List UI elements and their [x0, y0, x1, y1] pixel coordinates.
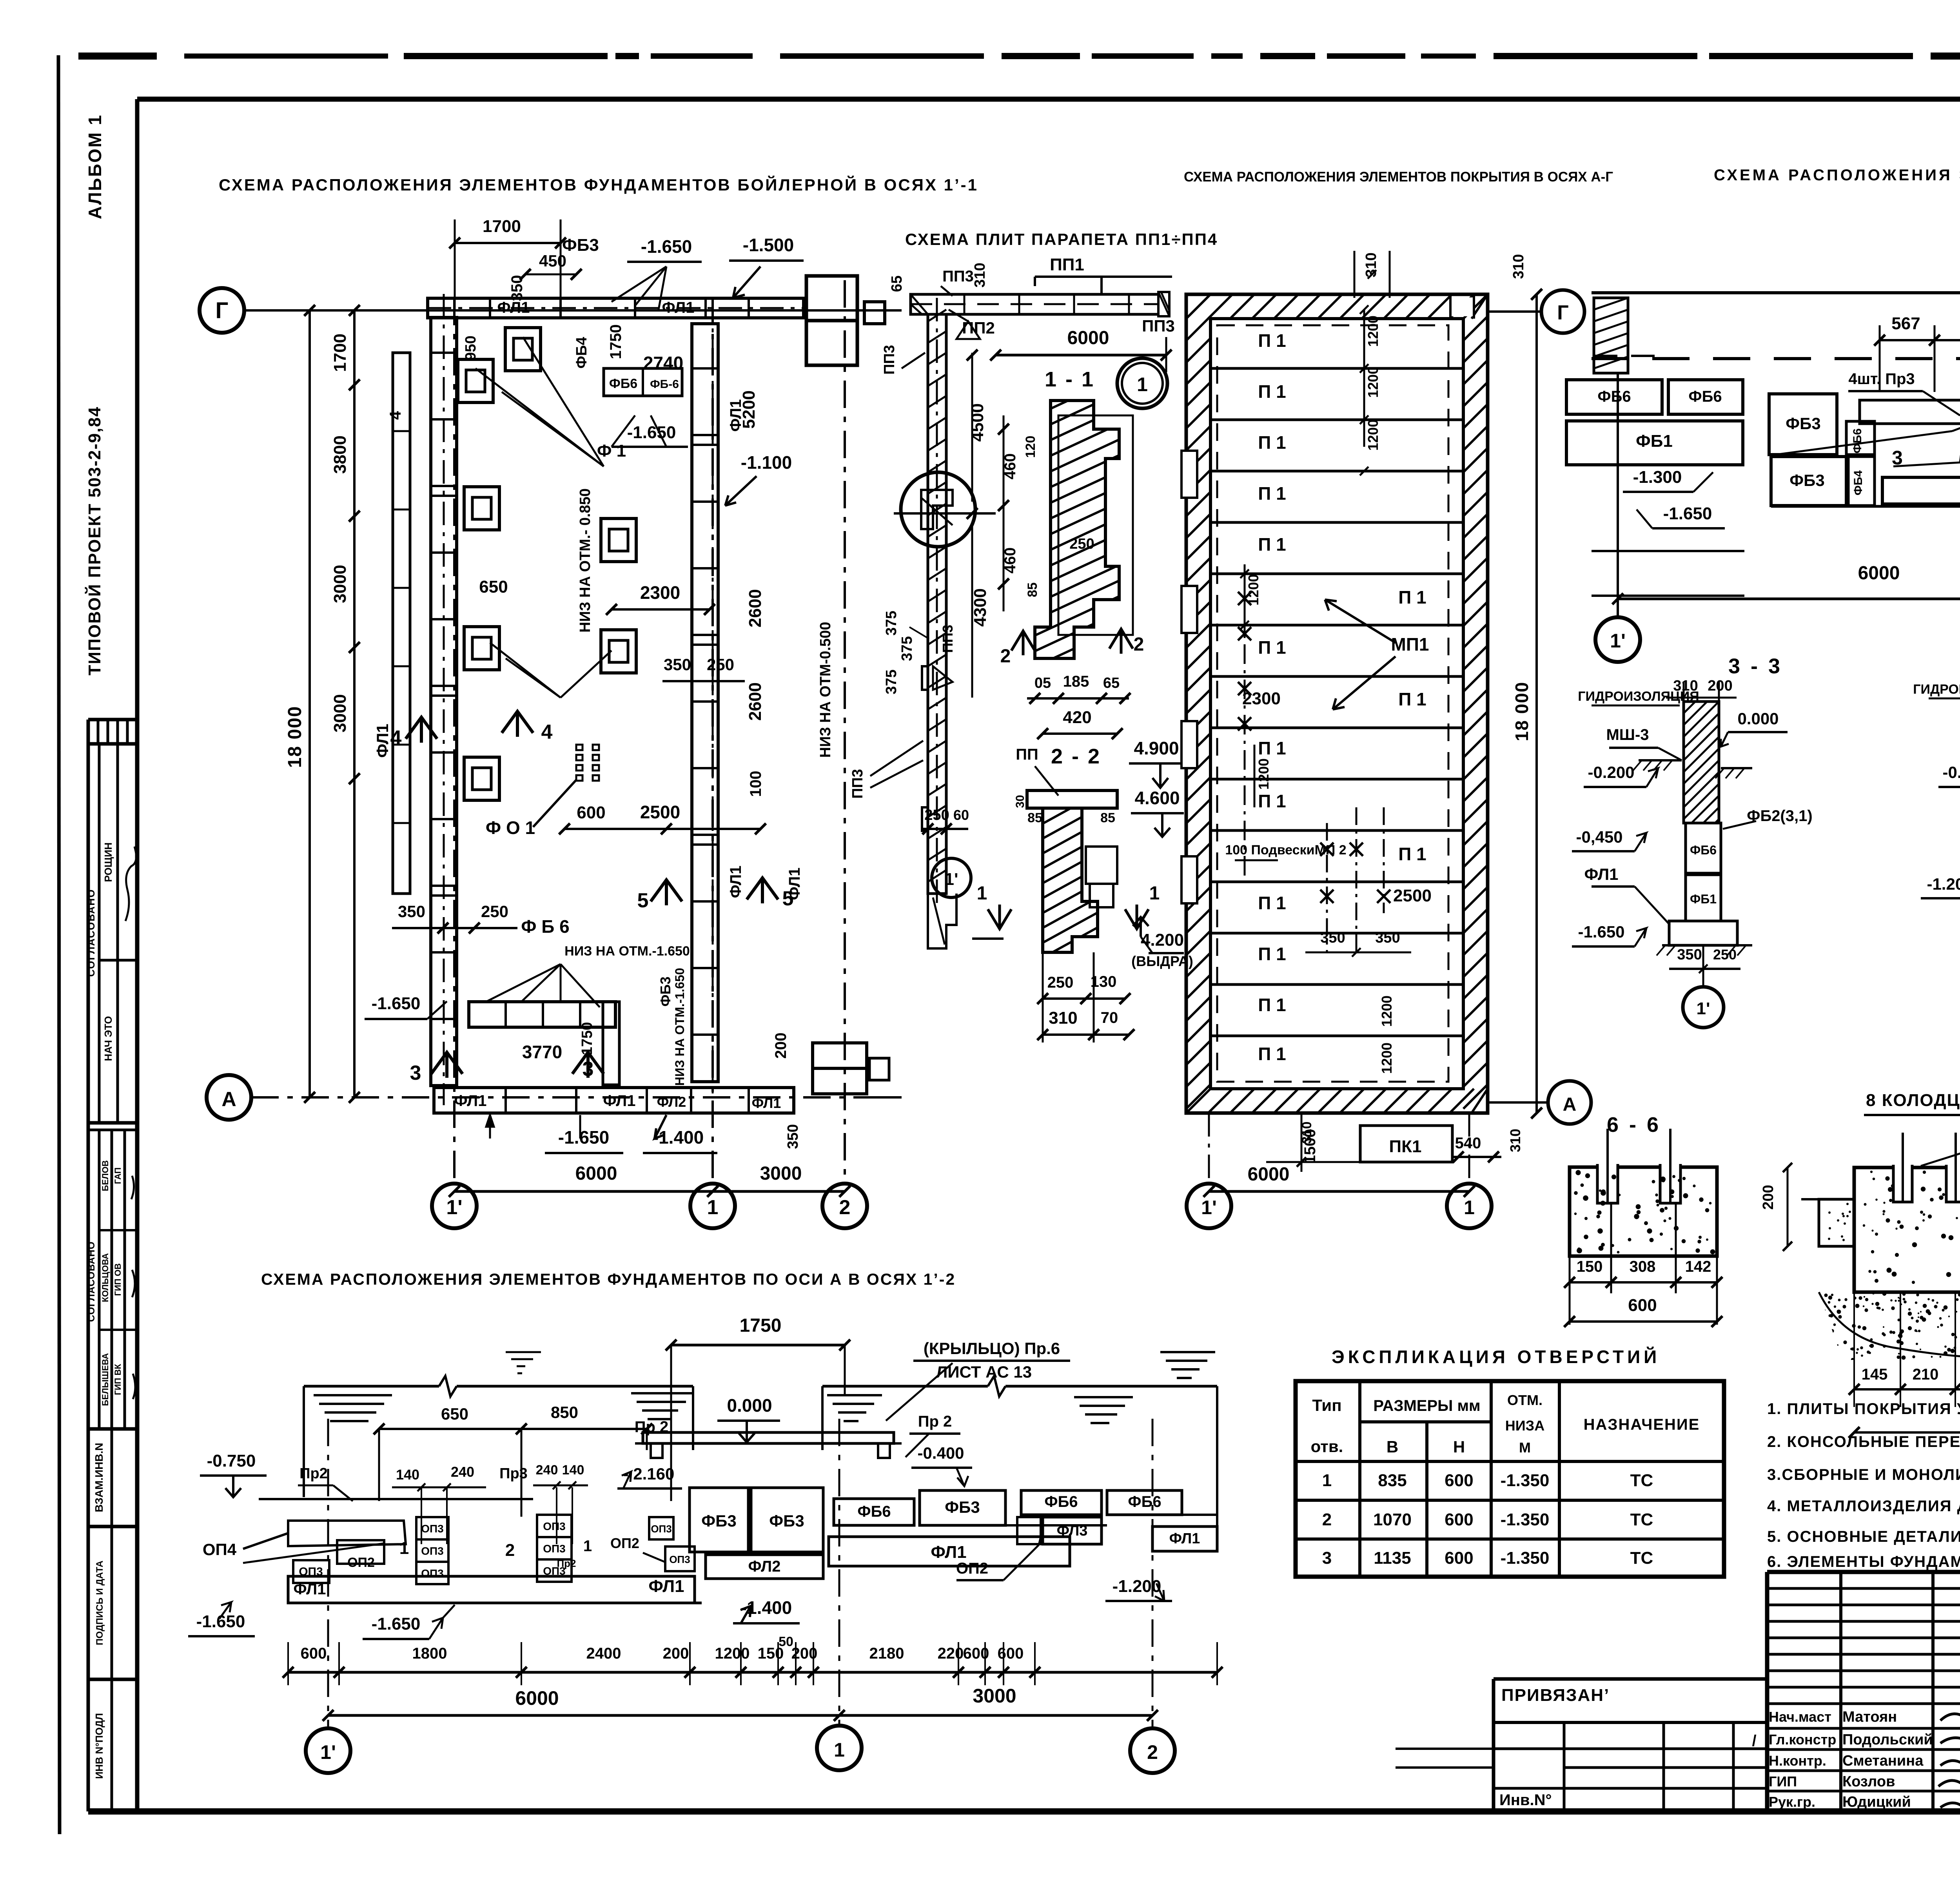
- svg-text:1. ПЛИТЫ ПОКРЫТИЯ УКЛАДЫВАТЬ: 1. ПЛИТЫ ПОКРЫТИЯ УКЛАДЫВАТЬ ПО УКЛОНУ:У…: [1767, 1400, 1960, 1418]
- svg-text:(КРЫЛЬЦО) Пр.6: (КРЫЛЬЦО) Пр.6: [924, 1339, 1060, 1358]
- svg-text:1': 1': [446, 1196, 462, 1219]
- svg-text:ФБ3: ФБ3: [701, 1512, 736, 1530]
- svg-text:1': 1': [320, 1741, 336, 1763]
- svg-text:2500: 2500: [1393, 886, 1432, 905]
- svg-text:3: 3: [410, 1062, 421, 1084]
- svg-text:МШ-3: МШ-3: [1606, 726, 1649, 743]
- svg-text:1750: 1750: [607, 325, 624, 359]
- svg-text:600: 600: [577, 803, 605, 822]
- svg-text:240: 240: [451, 1464, 474, 1480]
- svg-text:ИНВ N°ПОДЛ: ИНВ N°ПОДЛ: [93, 1713, 105, 1779]
- svg-text:Пр2: Пр2: [299, 1465, 328, 1482]
- svg-text:-1.650: -1.650: [372, 1614, 421, 1633]
- svg-text:05: 05: [1034, 675, 1051, 691]
- svg-text:2300: 2300: [640, 582, 680, 603]
- svg-text:-1.200: -1.200: [1112, 1577, 1161, 1596]
- svg-text:-1.650: -1.650: [1578, 923, 1624, 941]
- svg-text:ФЛ1: ФЛ1: [603, 1092, 636, 1110]
- svg-text:3 - 3: 3 - 3: [1728, 654, 1782, 678]
- svg-text:ФБ6: ФБ6: [1688, 388, 1722, 405]
- svg-text:ТС: ТС: [1630, 1471, 1653, 1490]
- svg-text:200: 200: [772, 1033, 789, 1059]
- svg-text:В: В: [1387, 1438, 1398, 1456]
- svg-text:650: 650: [441, 1405, 468, 1423]
- svg-text:375: 375: [883, 669, 900, 694]
- svg-text:ФБ4: ФБ4: [1852, 470, 1865, 495]
- svg-text:600: 600: [1445, 1548, 1473, 1568]
- svg-text:4: 4: [387, 411, 404, 420]
- svg-text:Пр2: Пр2: [557, 1557, 576, 1569]
- svg-text:ОП2: ОП2: [347, 1555, 375, 1570]
- svg-text:ПК1: ПК1: [1389, 1137, 1422, 1156]
- svg-text:ОП3: ОП3: [543, 1520, 565, 1532]
- svg-text:2. КОНСОЛЬНЫЕ ПЕРЕМЫЧКИ КРЫЛЬЦ: 2. КОНСОЛЬНЫЕ ПЕРЕМЫЧКИ КРЫЛЬЦА МОНТИРОВ…: [1767, 1433, 1960, 1450]
- svg-text:-0.200: -0.200: [1942, 763, 1960, 781]
- svg-text:4.600: 4.600: [1134, 788, 1180, 808]
- svg-text:2: 2: [1000, 646, 1011, 667]
- svg-text:70: 70: [1101, 1009, 1118, 1026]
- svg-text:1: 1: [1322, 1471, 1332, 1490]
- svg-text:-1.650: -1.650: [641, 236, 692, 257]
- svg-text:СОГЛАСОВАНО: СОГЛАСОВАНО: [85, 889, 97, 977]
- svg-text:НАЗНАЧЕНИЕ: НАЗНАЧЕНИЕ: [1584, 1416, 1700, 1433]
- svg-text:отв.: отв.: [1311, 1437, 1343, 1456]
- svg-text:Пр 2: Пр 2: [635, 1418, 669, 1436]
- svg-text:ФБ6: ФБ6: [1128, 1493, 1161, 1510]
- svg-text:ФБ6: ФБ6: [1690, 843, 1717, 857]
- svg-text:600: 600: [1445, 1510, 1473, 1529]
- svg-text:П 1: П 1: [1258, 483, 1286, 504]
- svg-text:ФБ3: ФБ3: [769, 1512, 804, 1530]
- svg-text:ПП3: ПП3: [942, 268, 974, 285]
- svg-text:Н: Н: [1453, 1438, 1465, 1456]
- svg-text:ФБ3: ФБ3: [1789, 471, 1824, 490]
- svg-text:Матоян: Матоян: [1842, 1709, 1897, 1725]
- svg-text:Пр 2: Пр 2: [918, 1413, 952, 1430]
- svg-text:1800: 1800: [412, 1645, 447, 1662]
- svg-text:ГИП: ГИП: [1769, 1773, 1797, 1789]
- svg-text:ФБ6: ФБ6: [609, 376, 637, 391]
- svg-text:-1.650: -1.650: [372, 994, 421, 1013]
- svg-text:350: 350: [1375, 930, 1400, 946]
- svg-text:5. ОСНОВНЫЕ ДЕТАЛИ И УЗЛЫ ПО: 5. ОСНОВНЫЕ ДЕТАЛИ И УЗЛЫ ПО СТЕНАМ И КР…: [1767, 1528, 1960, 1545]
- svg-text:ПОДПИСЬ И ДАТА: ПОДПИСЬ И ДАТА: [94, 1561, 105, 1645]
- svg-text:1200: 1200: [1379, 995, 1395, 1027]
- svg-text:Сметанина: Сметанина: [1842, 1753, 1924, 1769]
- svg-text:ПП: ПП: [1016, 746, 1038, 763]
- svg-text:Рук.гр.: Рук.гр.: [1769, 1794, 1815, 1810]
- svg-text:-1.200: -1.200: [1927, 875, 1960, 893]
- svg-text:-1.350: -1.350: [1501, 1548, 1550, 1568]
- svg-text:60: 60: [953, 807, 969, 823]
- svg-text:БЕЛЫШЕВА: БЕЛЫШЕВА: [100, 1353, 110, 1406]
- svg-text:ФБ-6: ФБ-6: [650, 378, 679, 391]
- svg-text:835: 835: [1378, 1471, 1406, 1490]
- svg-text:85: 85: [1100, 810, 1115, 825]
- svg-text:1: 1: [399, 1539, 409, 1558]
- svg-text:210: 210: [1913, 1366, 1939, 1383]
- svg-text:2: 2: [1147, 1741, 1158, 1763]
- svg-text:1: 1: [977, 883, 987, 904]
- svg-text:НИЗ НА ОТМ.-1.650: НИЗ НА ОТМ.-1.650: [673, 968, 687, 1086]
- svg-text:СХЕМА РАСПОЛОЖЕНИЯ ЭЛЕМЕНТОВ: СХЕМА РАСПОЛОЖЕНИЯ ЭЛЕМЕНТОВ ФУНДАМЕНТОВ…: [219, 175, 978, 194]
- svg-text:250: 250: [1713, 946, 1737, 963]
- svg-text:2180: 2180: [869, 1645, 904, 1662]
- svg-text:600: 600: [1445, 1471, 1473, 1490]
- svg-text:1200: 1200: [1365, 419, 1381, 451]
- svg-text:600: 600: [998, 1645, 1024, 1662]
- svg-text:НИЗ НА ОТМ.-1.650: НИЗ НА ОТМ.-1.650: [564, 944, 690, 959]
- svg-text:БЕЛОВ: БЕЛОВ: [100, 1160, 110, 1191]
- svg-text:310: 310: [1299, 1122, 1314, 1144]
- svg-text:1': 1': [945, 870, 958, 889]
- svg-text:2400: 2400: [586, 1645, 621, 1662]
- svg-text:РАЗМЕРЫ мм: РАЗМЕРЫ мм: [1373, 1397, 1480, 1414]
- svg-text:420: 420: [1063, 708, 1091, 727]
- svg-text:П 1: П 1: [1258, 893, 1286, 913]
- svg-text:310: 310: [1363, 252, 1379, 277]
- svg-text:4: 4: [390, 727, 402, 749]
- svg-text:П 1: П 1: [1258, 432, 1286, 453]
- svg-text:18 000: 18 000: [1512, 682, 1532, 742]
- svg-text:А: А: [221, 1088, 236, 1111]
- svg-text:2: 2: [505, 1541, 515, 1560]
- svg-text:310: 310: [972, 263, 988, 287]
- svg-text:1 - 1: 1 - 1: [1045, 368, 1095, 391]
- svg-text:ФБ6: ФБ6: [1597, 388, 1631, 405]
- svg-text:1: 1: [1464, 1197, 1475, 1218]
- svg-text:ОП3: ОП3: [651, 1523, 671, 1535]
- svg-text:1135: 1135: [1374, 1548, 1411, 1568]
- svg-text:П 1: П 1: [1258, 381, 1286, 402]
- svg-text:4.900: 4.900: [1134, 738, 1179, 758]
- svg-text:П 1: П 1: [1398, 587, 1426, 607]
- svg-text:142: 142: [1685, 1258, 1711, 1275]
- svg-text:-1.350: -1.350: [1501, 1510, 1550, 1529]
- svg-text:8 КОЛОДЦЕВ 80×80: 8 КОЛОДЦЕВ 80×80: [1866, 1091, 1960, 1110]
- svg-text:140: 140: [562, 1463, 584, 1478]
- svg-text:240: 240: [536, 1463, 558, 1478]
- svg-text:-0,450: -0,450: [1576, 828, 1622, 846]
- svg-text:350: 350: [1677, 946, 1702, 963]
- svg-text:Подольский: Подольский: [1842, 1731, 1933, 1748]
- svg-text:3800: 3800: [330, 435, 350, 474]
- svg-text:Инв.N°: Инв.N°: [1499, 1791, 1552, 1809]
- svg-text:СХЕМА РАСПОЛОЖЕНИЯ ЭЛЕМЕНТОВ П: СХЕМА РАСПОЛОЖЕНИЯ ЭЛЕМЕНТОВ ПОКРЫТИЯ В …: [1184, 169, 1613, 185]
- svg-text:1': 1': [1201, 1197, 1217, 1218]
- svg-text:6000: 6000: [1248, 1164, 1290, 1185]
- svg-text:ФЛ1: ФЛ1: [752, 1095, 781, 1111]
- svg-text:ОП3: ОП3: [669, 1554, 690, 1565]
- svg-text:250: 250: [1069, 536, 1094, 552]
- svg-text:140: 140: [396, 1467, 419, 1483]
- svg-text:СХЕМА РАСПОЛОЖЕНИЯ ЭЛЕМЕНТОВ: СХЕМА РАСПОЛОЖЕНИЯ ЭЛЕМЕНТОВ ФУНДАМЕНТОВ…: [1714, 167, 1960, 184]
- svg-text:200: 200: [1708, 678, 1732, 694]
- svg-text:П 1: П 1: [1258, 995, 1286, 1015]
- svg-text:ФЛ1: ФЛ1: [931, 1543, 966, 1562]
- svg-text:4. МЕТАЛЛОИЗДЕЛИЯ ДАНЫ В СОС: 4. МЕТАЛЛОИЗДЕЛИЯ ДАНЫ В СОСТАВЕ ДАННОГО…: [1767, 1498, 1960, 1515]
- svg-text:-0.400: -0.400: [917, 1444, 964, 1462]
- svg-text:МП1: МП1: [1391, 634, 1429, 654]
- svg-text:85: 85: [1027, 810, 1042, 825]
- svg-text:308: 308: [1630, 1258, 1656, 1275]
- svg-text:ТИПОВОЙ ПРОЕКТ 503-2-9,84: ТИПОВОЙ ПРОЕКТ 503-2-9,84: [84, 406, 104, 676]
- svg-text:ПП3: ПП3: [940, 625, 956, 653]
- svg-text:3000: 3000: [330, 565, 350, 603]
- svg-text:А: А: [1563, 1094, 1577, 1115]
- svg-text:Ф Б 6: Ф Б 6: [521, 916, 569, 937]
- svg-text:2: 2: [1134, 634, 1144, 655]
- svg-text:ФЛ2: ФЛ2: [657, 1094, 686, 1110]
- svg-text:ОП3: ОП3: [421, 1523, 443, 1535]
- svg-text:ФЛ1: ФЛ1: [1169, 1530, 1200, 1547]
- svg-text:6000: 6000: [1067, 328, 1109, 348]
- svg-text:ТС: ТС: [1630, 1510, 1653, 1529]
- svg-text:ГИП ОВ: ГИП ОВ: [113, 1263, 123, 1296]
- svg-text:ПП1: ПП1: [1050, 255, 1084, 274]
- svg-text:Козлов: Козлов: [1842, 1773, 1895, 1790]
- svg-text:350: 350: [398, 902, 425, 921]
- svg-text:ПП3: ПП3: [1142, 317, 1175, 335]
- svg-text:АЛЬБОМ 1: АЛЬБОМ 1: [85, 114, 105, 219]
- svg-text:(ВЫДРА): (ВЫДРА): [1131, 953, 1193, 969]
- svg-text:2 - 2: 2 - 2: [1051, 745, 1101, 768]
- svg-text:ФБ6: ФБ6: [857, 1503, 891, 1520]
- svg-text:350: 350: [1320, 930, 1345, 946]
- svg-text:ПП3: ПП3: [849, 769, 866, 799]
- svg-text:НИЗ НА ОТМ.- 0.850: НИЗ НА ОТМ.- 0.850: [577, 488, 593, 633]
- svg-text:ГИП ВК: ГИП ВК: [113, 1364, 123, 1395]
- svg-text:Г: Г: [216, 298, 229, 323]
- svg-text:ФЛ2: ФЛ2: [748, 1558, 781, 1575]
- svg-text:567: 567: [1891, 314, 1920, 333]
- svg-text:-1.500: -1.500: [743, 235, 794, 255]
- svg-text:П 1: П 1: [1258, 330, 1286, 351]
- svg-text:П 1: П 1: [1258, 637, 1286, 658]
- svg-text:Тип: Тип: [1312, 1396, 1341, 1414]
- svg-text:1: 1: [1137, 373, 1148, 395]
- svg-text:1200: 1200: [1379, 1042, 1395, 1074]
- svg-text:1200: 1200: [1365, 366, 1381, 398]
- svg-text:250: 250: [707, 655, 734, 674]
- svg-text:2: 2: [839, 1196, 851, 1219]
- svg-text:ФЛ1: ФЛ1: [648, 1577, 684, 1596]
- svg-text:КОЛЬЦОВА: КОЛЬЦОВА: [100, 1253, 110, 1302]
- svg-text:-1.100: -1.100: [741, 452, 792, 473]
- svg-text:150: 150: [1577, 1258, 1603, 1275]
- svg-text:-1.650: -1.650: [1663, 504, 1712, 523]
- svg-text:1700: 1700: [330, 334, 350, 372]
- svg-text:ФЛ1: ФЛ1: [294, 1581, 326, 1598]
- svg-text:-0.750: -0.750: [207, 1451, 256, 1470]
- svg-text:2600: 2600: [746, 682, 765, 721]
- svg-text:250: 250: [481, 902, 508, 921]
- svg-text:310: 310: [1507, 1129, 1523, 1152]
- svg-text:ПП3: ПП3: [881, 345, 898, 375]
- svg-text:1200: 1200: [1365, 315, 1381, 347]
- svg-text:ВЗАМ.ИНВ.N: ВЗАМ.ИНВ.N: [93, 1443, 105, 1512]
- svg-text:ФЛ1: ФЛ1: [727, 866, 744, 898]
- svg-text:6 - 6: 6 - 6: [1607, 1113, 1661, 1137]
- svg-text:4300: 4300: [971, 588, 990, 627]
- svg-text:2500: 2500: [640, 802, 680, 822]
- svg-text:650: 650: [479, 577, 508, 596]
- svg-text:ФБ2(3,1): ФБ2(3,1): [1747, 807, 1812, 825]
- svg-text:Юдицкий: Юдицкий: [1842, 1794, 1911, 1810]
- svg-text:1: 1: [834, 1739, 845, 1761]
- svg-text:ФБ6: ФБ6: [1851, 428, 1864, 453]
- svg-text:1: 1: [1149, 883, 1160, 904]
- svg-text:П 1: П 1: [1258, 1044, 1286, 1064]
- svg-text:65: 65: [1103, 675, 1120, 691]
- svg-text:30: 30: [1014, 795, 1027, 808]
- svg-text:П 1: П 1: [1258, 944, 1286, 964]
- svg-text:Нач.маст: Нач.маст: [1769, 1709, 1831, 1725]
- svg-text:6000: 6000: [575, 1163, 617, 1184]
- svg-text:120: 120: [1023, 436, 1038, 458]
- svg-text:3: 3: [1322, 1548, 1332, 1568]
- svg-text:П 1: П 1: [1258, 534, 1286, 555]
- svg-text:/: /: [1752, 1732, 1756, 1750]
- svg-text:ПРИВЯЗАН’: ПРИВЯЗАН’: [1501, 1686, 1610, 1705]
- svg-text:П 1: П 1: [1398, 844, 1426, 864]
- svg-text:3000: 3000: [973, 1685, 1016, 1707]
- svg-text:1070: 1070: [1373, 1510, 1412, 1529]
- svg-text:П 1: П 1: [1258, 791, 1286, 811]
- svg-text:950: 950: [463, 335, 479, 360]
- svg-text:СХЕМА РАСПОЛОЖЕНИЯ ЭЛЕМЕНТОВ: СХЕМА РАСПОЛОЖЕНИЯ ЭЛЕМЕНТОВ ФУНДАМЕНТОВ…: [261, 1270, 956, 1288]
- svg-text:600: 600: [1628, 1296, 1657, 1315]
- svg-text:Пр3: Пр3: [499, 1465, 528, 1482]
- svg-text:Н.контр.: Н.контр.: [1769, 1753, 1826, 1769]
- svg-text:ФБ6: ФБ6: [1044, 1493, 1078, 1510]
- svg-text:ФБ4: ФБ4: [573, 337, 590, 369]
- svg-text:НИЗА: НИЗА: [1505, 1418, 1544, 1434]
- svg-text:ФЛ1: ФЛ1: [373, 723, 392, 758]
- svg-text:6000: 6000: [515, 1687, 559, 1709]
- svg-text:СОГЛАСОВАНО: СОГЛАСОВАНО: [86, 1241, 97, 1322]
- svg-text:ФБ3: ФБ3: [945, 1498, 980, 1516]
- svg-text:375: 375: [899, 636, 915, 661]
- svg-text:4шт. Пр3: 4шт. Пр3: [1848, 370, 1915, 388]
- svg-text:1': 1': [1610, 630, 1626, 652]
- svg-text:5: 5: [637, 889, 649, 912]
- svg-text:18 000: 18 000: [285, 706, 305, 768]
- svg-text:0.000: 0.000: [1737, 709, 1779, 728]
- svg-text:НАЧ ЭТО: НАЧ ЭТО: [102, 1016, 114, 1061]
- svg-text:Ф О 1: Ф О 1: [486, 818, 535, 838]
- svg-text:200: 200: [663, 1645, 689, 1662]
- svg-text:4500: 4500: [968, 403, 987, 442]
- svg-text:220: 220: [938, 1645, 964, 1662]
- svg-text:0.000: 0.000: [727, 1395, 772, 1416]
- svg-text:ОТМ.: ОТМ.: [1507, 1392, 1543, 1408]
- svg-text:2: 2: [1322, 1510, 1332, 1529]
- svg-text:-0.200: -0.200: [1588, 763, 1634, 781]
- svg-text:НИЗ НА ОТМ-0.500: НИЗ НА ОТМ-0.500: [817, 622, 834, 758]
- svg-text:50: 50: [779, 1634, 793, 1649]
- svg-text:ФБ1: ФБ1: [1636, 431, 1673, 451]
- svg-text:200: 200: [1760, 1185, 1777, 1209]
- svg-text:ЭКСПЛИКАЦИЯ ОТВЕРСТИЙ: ЭКСПЛИКАЦИЯ ОТВЕРСТИЙ: [1332, 1347, 1660, 1367]
- svg-text:ФБ3: ФБ3: [562, 236, 599, 255]
- svg-text:2740: 2740: [643, 353, 683, 373]
- svg-text:600: 600: [301, 1645, 327, 1662]
- svg-text:ОП3: ОП3: [421, 1545, 443, 1557]
- svg-text:ТС: ТС: [1630, 1548, 1653, 1568]
- svg-text:1750: 1750: [740, 1315, 782, 1336]
- svg-text:145: 145: [1862, 1366, 1888, 1383]
- svg-text:1200: 1200: [1256, 758, 1272, 790]
- svg-text:250: 250: [1047, 974, 1074, 991]
- svg-text:3770: 3770: [522, 1042, 562, 1062]
- svg-text:4: 4: [541, 721, 553, 743]
- svg-text:5200: 5200: [739, 390, 759, 429]
- svg-text:-1.650: -1.650: [196, 1612, 245, 1631]
- svg-text:85: 85: [1025, 582, 1040, 597]
- svg-text:5: 5: [782, 887, 794, 910]
- svg-text:310: 310: [1510, 254, 1527, 279]
- svg-text:2600: 2600: [746, 589, 765, 627]
- svg-text:100: 100: [747, 771, 764, 797]
- svg-text:6. ЭЛЕМЕНТЫ ФУНДАМЕНТОВ МОНТ: 6. ЭЛЕМЕНТЫ ФУНДАМЕНТОВ МОНТИРОВАТЬ НА Р…: [1767, 1553, 1960, 1570]
- svg-text:ГАП: ГАП: [113, 1168, 123, 1184]
- svg-text:1200: 1200: [715, 1645, 750, 1662]
- svg-text:1: 1: [707, 1196, 719, 1219]
- svg-text:ФБ1: ФБ1: [1690, 892, 1717, 906]
- svg-text:250: 250: [924, 807, 949, 823]
- svg-text:1750: 1750: [579, 1022, 595, 1055]
- svg-text:65: 65: [889, 276, 905, 292]
- svg-text:310: 310: [1049, 1008, 1077, 1028]
- svg-text:ОП2: ОП2: [610, 1535, 639, 1551]
- svg-text:РОЩИН: РОЩИН: [102, 842, 114, 882]
- svg-text:6000: 6000: [1858, 563, 1900, 584]
- svg-text:375: 375: [883, 611, 900, 635]
- svg-text:-1.350: -1.350: [1501, 1471, 1550, 1490]
- svg-text:3000: 3000: [760, 1163, 802, 1184]
- svg-text:ФЛ1: ФЛ1: [454, 1092, 487, 1110]
- svg-text:ФБ3: ФБ3: [1786, 414, 1820, 433]
- svg-text:М: М: [1519, 1440, 1531, 1456]
- svg-text:ОП3: ОП3: [543, 1543, 565, 1555]
- svg-text:Ф 1: Ф 1: [597, 441, 626, 460]
- svg-text:-1.650: -1.650: [558, 1127, 609, 1148]
- svg-text:П 1: П 1: [1258, 738, 1286, 758]
- svg-text:ФБ3: ФБ3: [657, 977, 673, 1007]
- svg-text:-1.650: -1.650: [627, 423, 676, 442]
- svg-text:ОП2: ОП2: [956, 1560, 988, 1577]
- svg-text:Г: Г: [1557, 301, 1568, 324]
- svg-text:185: 185: [1063, 673, 1089, 690]
- svg-text:850: 850: [551, 1403, 578, 1421]
- svg-text:ГИДРОИЗОЛЯЦИЯ: ГИДРОИЗОЛЯЦИЯ: [1578, 689, 1699, 704]
- svg-text:-1.300: -1.300: [1633, 468, 1682, 487]
- svg-text:ОП4: ОП4: [203, 1540, 237, 1559]
- svg-text:СХЕМА ПЛИТ ПАРАПЕТА ПП1÷ПП4: СХЕМА ПЛИТ ПАРАПЕТА ПП1÷ПП4: [905, 230, 1218, 248]
- svg-text:3.СБОРНЫЕ И МОНОЛИТНЫЕ ИЗДЕЛИЯ: 3.СБОРНЫЕ И МОНОЛИТНЫЕ ИЗДЕЛИЯ СМ. ЛИСТЫ…: [1767, 1466, 1960, 1483]
- svg-text:ГИДРОИЗОЛЯЦИЯ: ГИДРОИЗОЛЯЦИЯ: [1913, 682, 1960, 697]
- svg-text:540: 540: [1455, 1135, 1481, 1152]
- svg-text:350: 350: [785, 1124, 801, 1149]
- svg-text:1': 1': [1697, 999, 1710, 1018]
- svg-text:3000: 3000: [330, 694, 350, 732]
- svg-text:П 1: П 1: [1398, 689, 1426, 709]
- svg-text:350: 350: [664, 655, 691, 674]
- svg-text:1: 1: [583, 1537, 592, 1555]
- svg-text:1700: 1700: [483, 217, 521, 236]
- svg-text:ФЛ1: ФЛ1: [1584, 865, 1618, 883]
